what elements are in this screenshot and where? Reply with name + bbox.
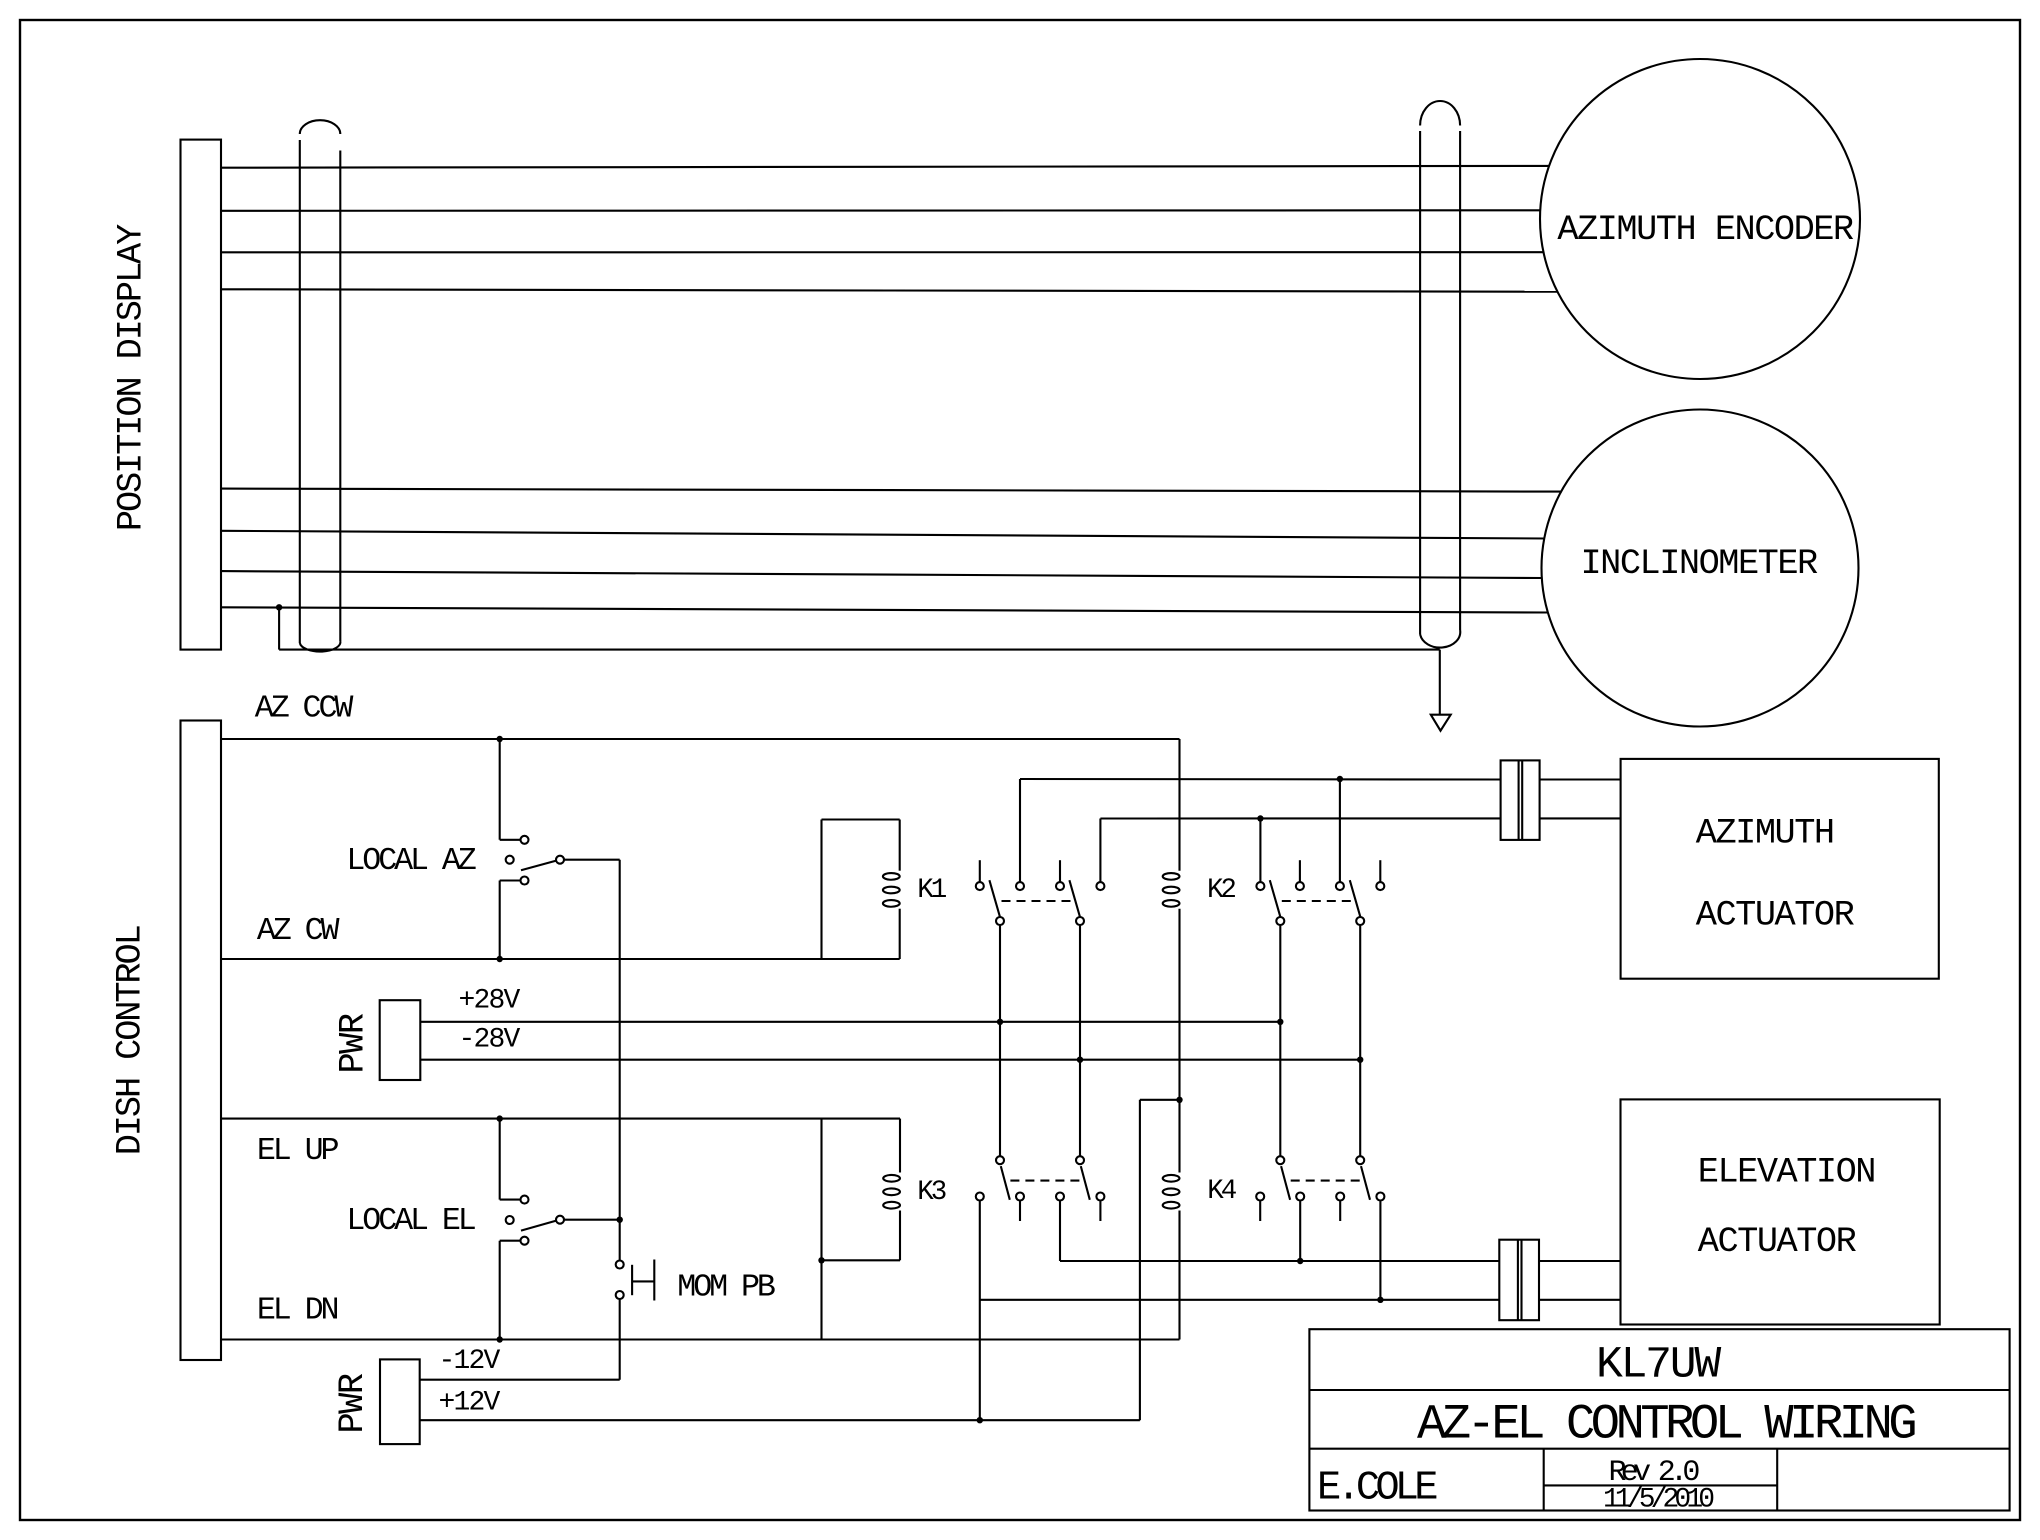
svg-text:K2: K2: [1207, 875, 1235, 906]
svg-text:-12V: -12V: [439, 1346, 501, 1377]
svg-text:11/5/2010: 11/5/2010: [1603, 1485, 1714, 1516]
svg-text:PWR: PWR: [333, 1373, 373, 1433]
svg-text:E.COLE: E.COLE: [1317, 1465, 1437, 1511]
svg-text:AZ-EL CONTROL WIRING: AZ-EL CONTROL WIRING: [1417, 1397, 1915, 1453]
svg-text:AZ CW: AZ CW: [257, 913, 340, 949]
svg-text:LOCAL EL: LOCAL EL: [346, 1203, 475, 1239]
svg-text:K1: K1: [917, 875, 946, 906]
svg-text:INCLINOMETER: INCLINOMETER: [1581, 544, 1818, 584]
svg-text:EL UP: EL UP: [257, 1133, 339, 1169]
svg-text:AZIMUTH: AZIMUTH: [1696, 814, 1834, 854]
svg-text:ACTUATOR: ACTUATOR: [1698, 1222, 1857, 1262]
svg-text:MOM PB: MOM PB: [677, 1270, 775, 1306]
svg-text:ELEVATION: ELEVATION: [1698, 1152, 1875, 1192]
svg-text:-28V: -28V: [459, 1025, 521, 1056]
svg-text:KL7UW: KL7UW: [1596, 1341, 1721, 1391]
svg-text:+28V: +28V: [459, 986, 521, 1017]
svg-text:EL DN: EL DN: [257, 1293, 338, 1329]
svg-text:AZIMUTH ENCODER: AZIMUTH ENCODER: [1557, 210, 1854, 250]
svg-text:DISH CONTROL: DISH CONTROL: [111, 926, 151, 1155]
svg-text:K3: K3: [917, 1177, 945, 1208]
svg-text:+12V: +12V: [439, 1388, 501, 1419]
svg-text:ACTUATOR: ACTUATOR: [1696, 895, 1855, 935]
svg-text:PWR: PWR: [333, 1013, 373, 1073]
svg-text:K4: K4: [1207, 1176, 1236, 1207]
svg-text:POSITION DISPLAY: POSITION DISPLAY: [111, 224, 151, 531]
svg-text:LOCAL AZ: LOCAL AZ: [346, 843, 475, 879]
svg-text:AZ CCW: AZ CCW: [255, 691, 354, 727]
